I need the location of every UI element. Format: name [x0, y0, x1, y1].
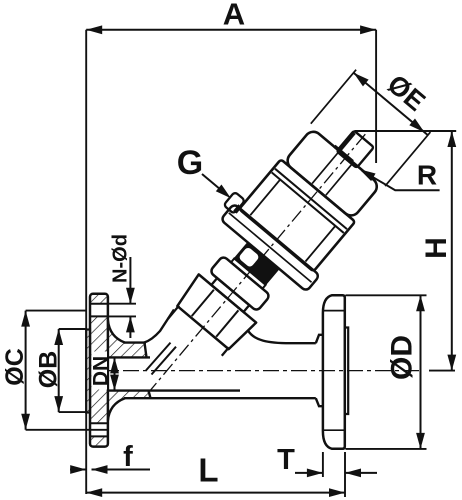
right flange cone — [316, 335, 323, 406]
hatch section left flange — [86, 295, 148, 445]
right flange bolt centerlines — [324, 311, 345, 431]
branch right fillet — [248, 331, 316, 344]
collar — [209, 256, 270, 312]
dim OD line — [420, 295, 422, 449]
dim DN arrows — [114, 357, 116, 390]
left flange disk — [90, 294, 108, 447]
svg-text:ØD: ØD — [386, 335, 419, 380]
dim L line — [86, 492, 345, 494]
right flange raised face — [345, 328, 348, 415]
svg-text:L: L — [198, 452, 218, 489]
svg-text:DN: DN — [90, 356, 113, 386]
bonnet — [174, 274, 256, 351]
dim A extension left — [85, 30, 87, 494]
svg-text:R: R — [417, 160, 437, 191]
dim OE line — [354, 73, 428, 135]
svg-text:A: A — [223, 0, 245, 32]
dim OC line — [25, 311, 27, 430]
R leader — [362, 171, 440, 190]
dim OB line — [58, 329, 60, 412]
bolt hole bottom — [90, 423, 108, 436]
svg-text:ØB: ØB — [35, 351, 63, 389]
label DN backing — [92, 352, 108, 390]
branch stub — [168, 306, 229, 361]
dim H ext bottom — [429, 370, 455, 372]
right flange disk — [323, 295, 345, 449]
pilot port tab G — [224, 192, 246, 214]
dim H line — [451, 131, 453, 371]
dim A extension right — [375, 30, 377, 163]
svg-text:G: G — [177, 144, 203, 182]
housing bottom plate — [221, 204, 320, 292]
air port base thick — [334, 146, 352, 161]
air port thick edge — [339, 133, 354, 151]
branch left fillet — [144, 310, 174, 343]
plate mid line — [229, 213, 312, 282]
G leader — [202, 174, 227, 195]
left flange raised face — [86, 330, 90, 413]
seat lines — [146, 343, 176, 375]
housing main — [239, 159, 355, 271]
dim OD ext lines — [346, 295, 427, 449]
tab dark wedge — [233, 204, 242, 213]
svg-text:N-Ød: N-Ød — [110, 234, 132, 283]
dim T ext lines — [323, 452, 345, 497]
seal white window — [238, 246, 260, 268]
dim T arrows — [295, 472, 377, 474]
N-Od upper arrow — [129, 257, 131, 304]
dim N-Od ext lines — [108, 304, 136, 317]
dim f arrows — [70, 469, 150, 471]
spring lines — [250, 180, 335, 262]
pipe bottom edge — [124, 397, 316, 399]
air port — [337, 131, 374, 168]
pipe centerline — [95, 370, 423, 372]
svg-text:H: H — [420, 237, 453, 259]
svg-text:f: f — [123, 441, 133, 473]
svg-text:ØC: ØC — [1, 348, 29, 386]
dim A line — [86, 29, 376, 31]
rod lines — [312, 152, 352, 195]
N-Od lower arrow — [129, 316, 131, 338]
housing top cap — [284, 128, 380, 219]
bolt hole top — [90, 304, 108, 317]
OE arrows — [351, 69, 369, 86]
dim H ext top — [355, 130, 457, 132]
pipe body outline — [108, 343, 240, 399]
dim OC ext lines — [26, 311, 108, 430]
piston line — [272, 169, 347, 233]
neck stem — [231, 259, 266, 289]
branch centerline — [148, 134, 365, 393]
actuator group rotated 40deg — [100, 38, 455, 429]
dim OE ext lines — [311, 70, 431, 186]
bonnet hex lines — [192, 290, 239, 337]
svg-text:T: T — [277, 444, 295, 476]
left flange hub fillets — [108, 320, 125, 421]
dim OB ext lines — [59, 329, 86, 412]
neck ring — [211, 278, 249, 312]
black band seal — [234, 242, 280, 285]
pipe top edge left of branch — [124, 341, 146, 343]
